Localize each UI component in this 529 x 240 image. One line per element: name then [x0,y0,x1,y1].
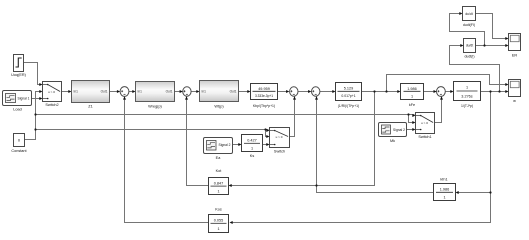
svg-text:dudt(FI): dudt(FI) [463,23,475,27]
arrow into Wt [196,90,199,93]
transfer fn Kbp [251,84,278,108]
gain Ks [242,135,263,159]
svg-text:1.986: 1.986 [440,187,450,191]
svg-text:1: 1 [217,189,219,193]
arrow into Switch port2 [266,135,269,138]
svg-text:Switch1: Switch1 [418,135,431,139]
arrow into Kbp block [247,90,250,93]
wire Ea to Ks [233,144,241,146]
svg-text:In1: In1 [74,90,79,94]
sum S2 [183,87,191,96]
arrow into Scope ER port2 [505,44,508,47]
arrow into TF (1/Rl) [332,90,335,93]
switch Switch [270,128,290,154]
svg-text:0.427: 0.427 [247,139,257,143]
svg-text:1: 1 [411,94,413,98]
svg-text:1/(TJ*p): 1/(TJ*p) [461,104,473,108]
svg-text:du/dt: du/dt [466,44,473,48]
arrow into Scope w port2 [505,90,508,93]
svg-text:Ks: Ks [250,154,255,158]
svg-text:Wreg(p): Wreg(p) [148,105,162,109]
svg-text:Out1: Out1 [101,90,108,94]
sum S4 [312,87,320,96]
step source Uoq(ER) [11,55,27,78]
svg-text:3.333e-3p+1: 3.333e-3p+1 [255,94,273,98]
subsystem Z1 [72,81,110,109]
svg-text:In1: In1 [202,90,207,94]
transfer fn 1/Rl [336,83,362,108]
svg-text:Mk: Mk [390,139,395,143]
constant 0 [11,134,27,154]
node zero-line A start [34,113,36,115]
svg-text:Constant: Constant [11,149,27,153]
wire step Uoq(ER) to Switch2 port1 [24,63,42,85]
svg-text:Wt(p): Wt(p) [214,105,224,109]
wire sum S4 to TF (1/Rl) [320,91,335,93]
svg-text:Switch2: Switch2 [45,103,58,107]
signal builder Load [3,91,32,112]
arrow into 1/TJp block [450,90,453,93]
sum S5 [437,87,446,97]
subsystem Wreg(p) [136,82,175,109]
wire Ks to Switch port3 [263,144,269,146]
node current to Kot [373,90,375,92]
wire Switch1 out up to sum S5 [435,97,442,123]
svg-text:1: 1 [443,196,445,200]
wire dudt(I) branch to dudt(FI) input [450,14,485,46]
svg-text:w: w [513,99,516,103]
wire Wreg to sum S2 [175,91,182,93]
svg-text:3.276s: 3.276s [461,95,473,99]
arrow into sum S2 bottom [185,96,188,99]
derivative dudt(I) [464,39,476,59]
svg-text:1: 1 [466,86,468,90]
wire sum S5 to 1/TJp block [446,91,453,93]
svg-text:Switch: Switch [274,149,285,153]
wire w branch down to Kos input [231,92,491,223]
svg-text:Z1: Z1 [88,105,92,109]
wire zero-line A drop to Switch1 port2 [409,115,415,123]
wire dudt(I) out to Scope ER port2 [476,45,508,47]
svg-text:u > 0: u > 0 [276,135,283,139]
switch Switch2 [43,82,62,108]
scope w [509,80,521,104]
svg-text:1: 1 [251,146,253,150]
wire kFe to sum S5 [424,91,436,93]
svg-text:In1: In1 [138,90,143,94]
wire sum S2 to Wt [192,91,199,93]
svg-text:u > 0: u > 0 [48,90,55,94]
derivative dudt(FI) [463,7,476,27]
svg-text:Out1: Out1 [230,90,237,94]
svg-text:Kbp/(Tbp*p+1): Kbp/(Tbp*p+1) [253,104,275,108]
arrow into Kos (leftward) [230,221,233,224]
arrow into Z1 [68,90,71,93]
arrow into sum S5 left [434,90,437,93]
wire 1/TJp block to Scope w port2 [481,91,508,93]
wire current branch down to Kot input [230,92,375,186]
arrow into sum S1 left [117,90,120,93]
wire Mk to Switch1 port3 [407,129,415,131]
arrow into Wreg [132,90,135,93]
transfer fn 1/TJp [454,82,481,109]
wire w branch up to dudt(I) input [450,46,500,92]
gain Kot (mirrored) [209,169,229,195]
wire w branch to kfn1 input [457,192,491,194]
svg-text:0.017p+1: 0.017p+1 [341,94,355,98]
svg-text:(1/Rl)/(Tl*p+1): (1/Rl)/(Tl*p+1) [338,104,359,108]
arrow into Switch port3 [266,143,269,146]
svg-text:Signal 1: Signal 1 [18,97,30,101]
arrow into Kot (leftward) [229,184,232,187]
arrow into sum S5 bottom [440,96,443,99]
arrow into sum S4 bottom [315,96,318,99]
arrow into kFe [397,90,400,93]
wire current branch up to Scope w port1 [387,75,508,92]
sum S3 [290,87,298,96]
arrow into Scope ER port1 [505,37,508,40]
svg-text:Load: Load [13,108,21,112]
signal builder Mk [379,123,407,144]
wire dudt(FI) out to Scope ER port1 [476,14,508,39]
node zero-line B start [34,128,36,130]
wire Constant up to Switch2 port2 [25,92,42,140]
gain kfn1 (mirrored) [434,178,456,201]
arrow into Switch port1 [266,129,269,132]
svg-text:dudt(I): dudt(I) [464,55,474,59]
wire Load to Switch2 port3 [32,98,42,100]
arrow into sum S4 left [308,90,311,93]
arrow into dudt(I) [460,44,463,47]
node Switch drop [264,128,266,130]
arrow into Switch1 port1 [412,114,415,117]
arrow into sum S3 bottom [293,96,296,99]
wire sum S3 to sum S4 [299,91,311,93]
node Switch1 drop [407,113,409,115]
svg-text:49.959: 49.959 [258,87,270,91]
gain Kos (mirrored) [209,208,229,233]
arrow into Switch2 port3 [39,97,42,100]
wire zero-line B (y=129) to Switch port1 [36,129,269,131]
svg-text:0.055: 0.055 [214,218,224,222]
arrow into kfn1 (leftward) [456,191,459,194]
arrow into Switch1 port2 [412,121,415,124]
wire Kbp block to sum S3 [278,91,289,93]
gain kFe [401,84,424,107]
arrow into Switch1 port3 [412,128,415,131]
node current to scope [385,90,387,92]
wire zero-line B drop to Switch port2 [266,130,269,137]
signal builder Ea [204,138,233,161]
svg-text:0.847: 0.847 [214,181,224,185]
subsystem Wt(p) [200,81,239,109]
wire Switch out up to sum S3 [290,97,295,137]
arrow into sum S1 bottom [123,96,126,99]
svg-text:Out1: Out1 [166,90,173,94]
arrow into dudt(FI) [459,12,462,15]
node kfn1 input tap [489,191,491,193]
svg-text:Kos: Kos [215,208,222,212]
wire Switch2 to Z1 [62,91,71,93]
svg-text:Signal 2: Signal 2 [393,128,405,132]
node deriv chain [483,44,485,46]
node w to deriv [498,90,500,92]
svg-text:Kot: Kot [216,169,223,173]
svg-text:Signal 2: Signal 2 [219,143,231,147]
sum S1 [120,87,129,97]
svg-text:5.129: 5.129 [344,86,354,90]
wire zero-line A (y=114) to Switch1 port1 [36,114,415,116]
svg-text:ER: ER [512,53,518,57]
arrow into sum S2 left [180,90,183,93]
arrowheads [39,12,508,224]
node w feedback down [489,90,491,92]
switch Switch1 [416,113,435,139]
svg-text:u > 0: u > 0 [421,121,428,125]
svg-text:kFe: kFe [409,103,415,107]
wire sum S1 to Wreg [129,91,135,93]
arrow into Switch2 port1 [39,83,42,86]
svg-text:du/dt: du/dt [465,12,472,16]
arrow into Switch2 port2 [39,90,42,93]
wire Z1 to sum S1 [110,91,119,93]
wire TF (1/Rl) to kFe [362,91,400,93]
wire Kot out up to sum S2 [187,97,209,186]
svg-text:kfn1: kfn1 [440,178,447,182]
wire Wt to Kbp block [239,91,250,93]
arrow into Scope w port1 [505,83,508,86]
svg-text:1: 1 [217,227,219,231]
scope ER [509,34,521,58]
wire Kos out up to sum S1 [125,97,209,223]
svg-text:Uoq(ER): Uoq(ER) [11,73,27,77]
arrow into Ks [238,143,241,146]
arrow into sum S3 left [286,90,289,93]
node kfn1 cross [315,184,317,186]
svg-text:1.986: 1.986 [407,87,417,91]
wire kfn1 out up to sum S4 [317,97,434,193]
